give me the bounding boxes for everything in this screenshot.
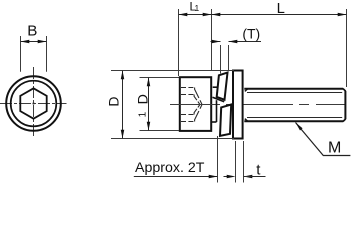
dimension D1 extension top xyxy=(140,77,180,79)
svg-text:D: D xyxy=(135,94,151,104)
thread end face xyxy=(344,91,346,119)
dimension D1 arrow top xyxy=(147,78,151,87)
spring washer back upper edge xyxy=(213,86,219,88)
dimension D1 text xyxy=(135,94,151,117)
dimension L extension right xyxy=(346,9,348,87)
svg-text:B: B xyxy=(27,22,37,39)
spring washer back lower vertical xyxy=(216,100,218,122)
dimension t extension right xyxy=(243,141,245,183)
thread minor diameter bottom xyxy=(247,117,342,119)
dimension T left arrow line xyxy=(211,41,221,43)
dimension T arrow right xyxy=(229,40,238,44)
dimension L1 arrow right xyxy=(203,13,212,17)
dimension D arrow bottom xyxy=(121,130,125,139)
left view vertical centerline xyxy=(33,67,35,138)
main centerline of screw xyxy=(166,104,345,106)
thread start chamfer bottom xyxy=(245,119,248,122)
socket hidden line row2 xyxy=(181,94,194,96)
dimension t extension left xyxy=(235,141,237,183)
center dot xyxy=(32,102,34,104)
dimension L1/L shared extension xyxy=(211,9,213,70)
dimension D line xyxy=(122,71,124,139)
spring washer upper section xyxy=(217,73,228,100)
spring washer lower section xyxy=(220,105,231,136)
spring washer split cut diagonal xyxy=(213,97,225,101)
dimension B extension line left xyxy=(20,36,22,72)
dimension t right tail xyxy=(244,176,266,178)
thread callout leader xyxy=(296,123,351,156)
svg-text:L: L xyxy=(277,1,285,17)
dimension 2T extension line xyxy=(217,136,219,183)
socket inner cone lower xyxy=(194,105,200,115)
thread end chamfer bottom xyxy=(343,119,346,122)
svg-text:1: 1 xyxy=(138,111,149,117)
dimension 2T arrow xyxy=(209,175,218,179)
svg-text:Approx. 2T: Approx. 2T xyxy=(135,160,205,176)
head rectangle xyxy=(180,77,211,131)
socket hidden line row4 xyxy=(181,121,195,123)
thread end chamfer top xyxy=(343,89,346,92)
dimension L line xyxy=(212,14,347,16)
flat washer xyxy=(233,71,243,139)
left view horizontal centerline xyxy=(0,103,67,105)
thread minor diameter top xyxy=(247,92,342,94)
dimension t dash between xyxy=(224,176,232,178)
socket bottom cone upper xyxy=(195,88,202,105)
dimension D extension bottom xyxy=(111,138,234,140)
thread start chamfer top xyxy=(245,89,248,92)
dimension t arrow left xyxy=(227,175,236,179)
dimension B line xyxy=(21,41,47,43)
thread callout arrow xyxy=(296,123,303,131)
dimension T right tail line xyxy=(229,41,262,43)
dimension D1 extension bottom xyxy=(140,130,180,132)
dimension L1 extension left xyxy=(178,9,180,76)
dimension L arrow left xyxy=(212,13,221,17)
socket hidden line row1 xyxy=(181,87,195,89)
hex socket xyxy=(20,88,46,118)
dimension D extension top xyxy=(111,70,234,72)
dimension T extension left xyxy=(220,45,222,74)
dimension B extension line right xyxy=(46,36,48,72)
svg-text:D: D xyxy=(106,97,122,107)
svg-text:1: 1 xyxy=(195,3,200,13)
dimension T extension right xyxy=(228,45,230,71)
socket bottom cone lower xyxy=(195,105,202,122)
dimension D1 line xyxy=(148,78,150,131)
head outer circle xyxy=(6,76,61,131)
socket inner cone upper xyxy=(194,95,200,105)
thread outline top xyxy=(244,88,343,90)
dimension B arrow left xyxy=(21,40,30,44)
thread outline bottom xyxy=(244,120,343,122)
svg-text:M: M xyxy=(328,139,341,156)
dimension D arrow top xyxy=(121,71,125,80)
dimension L1 line xyxy=(179,14,212,16)
dimension B arrow right xyxy=(38,40,47,44)
dimension T arrow left xyxy=(212,40,221,44)
socket hidden line row3 xyxy=(181,114,194,116)
spring washer back lower bottom edge xyxy=(212,121,217,123)
dimension L arrow right xyxy=(338,13,347,17)
dimension D1 arrow bottom xyxy=(147,122,151,131)
dimension 2T line with text underline xyxy=(134,176,218,178)
svg-text:(T): (T) xyxy=(242,26,260,42)
dimension t arrow right xyxy=(244,175,253,179)
head chamfer circle xyxy=(11,81,57,127)
dimension L1 arrow left xyxy=(179,13,188,17)
